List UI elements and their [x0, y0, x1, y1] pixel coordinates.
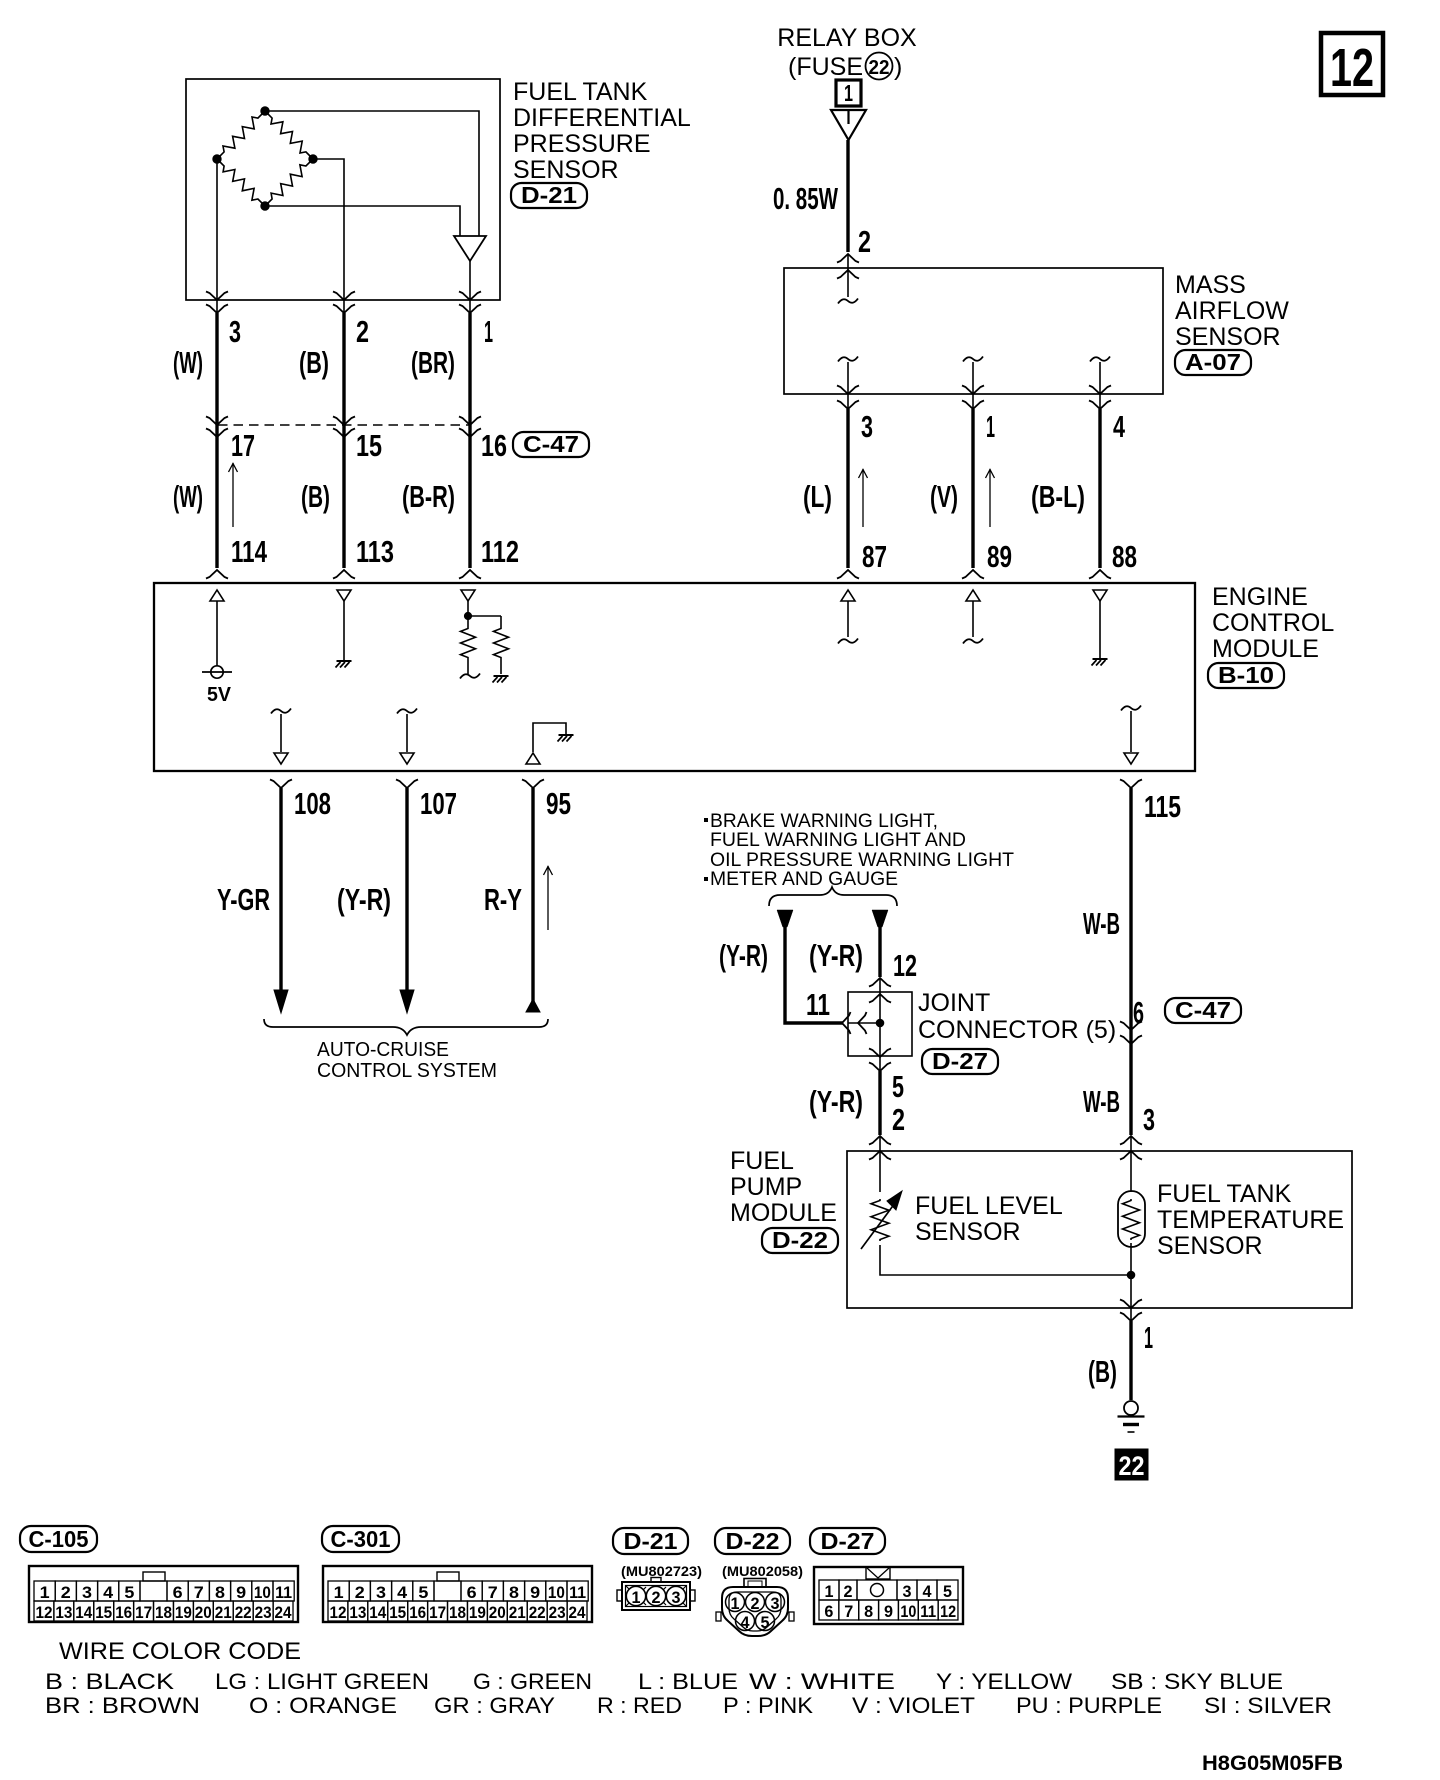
- chevrons MAF pin 2: [837, 254, 859, 279]
- svg-text:5V: 5V: [207, 684, 232, 706]
- svg-text:20: 20: [489, 1603, 506, 1622]
- pin label 2: [356, 314, 369, 349]
- svg-text:8: 8: [864, 1602, 873, 1621]
- svg-text:15: 15: [356, 428, 382, 463]
- wire (Y-R) joint 12: [878, 925, 881, 977]
- svg-text:10: 10: [254, 1583, 271, 1602]
- joint connector box D-27: [848, 992, 912, 1056]
- ground (ECM pin 95): [558, 735, 574, 742]
- svg-text:1: 1: [40, 1583, 50, 1602]
- svg-text:16: 16: [481, 428, 507, 463]
- ground (ECM pin 113): [336, 661, 352, 668]
- page number box 12: [1321, 33, 1383, 98]
- relay box label: [777, 24, 917, 52]
- svg-text:17: 17: [231, 428, 255, 463]
- svg-text:CONTROL: CONTROL: [1212, 609, 1334, 637]
- svg-text:22: 22: [1119, 1451, 1145, 1481]
- svg-text:7: 7: [844, 1602, 853, 1621]
- svg-text:0. 85W: 0. 85W: [773, 181, 838, 216]
- connector id D-22: [762, 1227, 838, 1253]
- chevrons C-47 pin 6: [1120, 1022, 1142, 1045]
- svg-text:22: 22: [529, 1603, 546, 1622]
- ECM pin 95 triangle: [526, 753, 540, 764]
- pin label 89: [987, 539, 1012, 574]
- ECM pin 112 internal node: [464, 601, 501, 620]
- pin label 5: [892, 1069, 904, 1104]
- svg-text:(Y-R): (Y-R): [809, 938, 863, 973]
- ECM pin 107 output triangle: [400, 753, 414, 764]
- svg-text:D-27: D-27: [821, 1528, 875, 1554]
- pin label 2 (fuel pump): [892, 1102, 905, 1137]
- node bridge top: [261, 107, 269, 115]
- ground (ECM pin 88): [1092, 659, 1108, 666]
- svg-text:3: 3: [771, 1594, 780, 1613]
- svg-text:SENSOR: SENSOR: [513, 156, 619, 184]
- part number MU802058: [722, 1563, 803, 1579]
- svg-text:OIL PRESSURE WARNING LIGHT: OIL PRESSURE WARNING LIGHT: [710, 850, 1014, 871]
- arrow beside wire 95: [544, 866, 553, 930]
- ECM pin 89 input triangle: [966, 590, 980, 601]
- svg-text:(W): (W): [173, 345, 203, 380]
- svg-text:14: 14: [369, 1603, 386, 1622]
- connector drawing D-22: [716, 1579, 794, 1637]
- svg-text:5: 5: [943, 1582, 952, 1601]
- connector C-47 chevrons x=344: [333, 417, 355, 438]
- svg-text:(V): (V): [930, 479, 958, 514]
- chevron at ECM top x=1100: [1089, 570, 1111, 579]
- svg-text:22: 22: [869, 57, 890, 79]
- brace warning lights: [769, 887, 897, 906]
- svg-text:6: 6: [467, 1583, 477, 1602]
- svg-text:(B-R): (B-R): [402, 479, 455, 514]
- svg-text:(Y-R): (Y-R): [337, 882, 391, 917]
- svg-text:11: 11: [569, 1583, 586, 1602]
- svg-text:D-21: D-21: [521, 182, 577, 208]
- svg-text:17: 17: [135, 1603, 152, 1622]
- svg-text:Y-GR: Y-GR: [217, 882, 270, 917]
- svg-text:2: 2: [356, 314, 369, 349]
- ECM pin 89 internal wire: [963, 601, 983, 644]
- ECM pin 88 ground wire: [1099, 601, 1101, 658]
- arrow beside wire 87: [859, 469, 868, 527]
- svg-text:(B): (B): [301, 479, 330, 514]
- svg-text:(MU802723): (MU802723): [621, 1563, 702, 1579]
- connector drawing D-27: [814, 1567, 963, 1624]
- ECM pin 115 internal wire: [1121, 706, 1141, 753]
- pin label 108: [294, 786, 331, 821]
- svg-text:7: 7: [194, 1583, 204, 1602]
- chevron at ECM top x=848: [837, 570, 859, 579]
- svg-text:BR : BROWN: BR : BROWN: [45, 1693, 200, 1718]
- svg-text:88: 88: [1112, 539, 1137, 574]
- svg-text:107: 107: [420, 786, 457, 821]
- svg-text:2: 2: [751, 1594, 760, 1613]
- svg-text:4: 4: [103, 1583, 114, 1602]
- arrowhead to meter (right): [872, 910, 888, 927]
- svg-text:(Y-R): (Y-R): [719, 938, 768, 973]
- svg-text:W : WHITE: W : WHITE: [749, 1669, 895, 1694]
- svg-text:PU : PURPLE: PU : PURPLE: [1016, 1693, 1162, 1718]
- svg-text:R : RED: R : RED: [597, 1693, 682, 1718]
- fuel tank temperature sensor (thermistor): [1118, 1191, 1145, 1247]
- wire Y-GR pin 108: [274, 788, 288, 1013]
- svg-text:(Y-R): (Y-R): [809, 1084, 863, 1119]
- 5V supply symbol: [202, 601, 232, 706]
- node dot fuel pump common: [1127, 1271, 1135, 1279]
- svg-text:C-301: C-301: [331, 1526, 391, 1552]
- fuel tank differential pressure sensor box D-21: [186, 79, 500, 300]
- svg-text:SENSOR: SENSOR: [1157, 1232, 1263, 1260]
- svg-text:ENGINE: ENGINE: [1212, 583, 1308, 611]
- arrow beside wire 89: [986, 469, 995, 527]
- MAF internal wire pin 1: [963, 357, 983, 410]
- module label FUEL PUMP MODULE: [730, 1147, 837, 1227]
- wire bridge right node to pin 2: [313, 159, 344, 313]
- svg-text:1: 1: [484, 314, 493, 349]
- svg-text:D-27: D-27: [932, 1048, 988, 1074]
- connector id D-21: [511, 182, 587, 208]
- MAF internal wire pin 3: [838, 357, 858, 410]
- connector id D-21 (bottom): [613, 1528, 688, 1554]
- svg-text:16: 16: [409, 1603, 426, 1622]
- fuel pump module box D-22: [847, 1151, 1352, 1308]
- svg-text:(MU802058): (MU802058): [722, 1563, 803, 1579]
- connector C-47 chevrons x=217: [206, 417, 228, 438]
- svg-text:5: 5: [761, 1613, 770, 1632]
- svg-text:17: 17: [429, 1603, 446, 1622]
- svg-text:AIRFLOW: AIRFLOW: [1175, 297, 1289, 325]
- svg-text:PRESSURE: PRESSURE: [513, 130, 651, 158]
- connector id B-10: [1208, 662, 1284, 688]
- svg-text:W-B: W-B: [1083, 906, 1120, 941]
- svg-text:FUEL: FUEL: [730, 1147, 794, 1175]
- svg-text:18: 18: [155, 1603, 172, 1622]
- wire color (Y-R) lower: [809, 1084, 863, 1119]
- wire color code title: [59, 1638, 301, 1665]
- svg-text:SI : SILVER: SI : SILVER: [1204, 1693, 1332, 1718]
- svg-text:19: 19: [469, 1603, 486, 1622]
- chevron at ECM top x=973: [962, 570, 984, 579]
- wire (B) fuel pump to ground: [1129, 1321, 1132, 1400]
- svg-text:14: 14: [75, 1603, 92, 1622]
- svg-text:12: 12: [330, 1603, 347, 1622]
- chevron at ECM top x=217: [206, 570, 228, 579]
- chevron at ECM top x=344: [333, 570, 355, 579]
- wire (W) pin3 to C-47 pin17: [215, 313, 218, 425]
- svg-text:12: 12: [1330, 38, 1374, 98]
- svg-text:1: 1: [1144, 1320, 1153, 1355]
- op-amp U1 (pressure sensor amplifier): [454, 236, 486, 261]
- wire color code line 1: [45, 1669, 1283, 1694]
- connector chevrons sensor pin 3: [206, 292, 228, 314]
- joint internal wire horizontal: [848, 1022, 880, 1024]
- connector id D-22 (bottom): [715, 1528, 790, 1554]
- wire amplifier output to pin 1: [469, 261, 471, 313]
- svg-text:DIFFERENTIAL: DIFFERENTIAL: [513, 104, 691, 132]
- svg-text:95: 95: [546, 786, 571, 821]
- mass airflow sensor box A-07: [784, 268, 1163, 394]
- svg-text:METER AND GAUGE: METER AND GAUGE: [710, 869, 898, 890]
- svg-text:A-07: A-07: [1185, 349, 1241, 375]
- svg-text:FUEL LEVEL: FUEL LEVEL: [915, 1192, 1063, 1220]
- svg-text:112: 112: [481, 534, 519, 569]
- pin label 15: [356, 428, 382, 463]
- svg-text:24: 24: [569, 1603, 586, 1622]
- svg-text:2: 2: [61, 1583, 71, 1602]
- wire color R-Y: [484, 882, 522, 917]
- pin label 114: [231, 534, 268, 569]
- node bridge left: [213, 155, 221, 163]
- svg-text:1: 1: [844, 80, 853, 106]
- pin label 3 (fuel pump): [1143, 1102, 1155, 1137]
- chevrons joint pin 5: [869, 1049, 891, 1072]
- svg-text:1: 1: [334, 1583, 344, 1602]
- svg-text:22: 22: [235, 1603, 252, 1622]
- chevrons MAF bottom x=1100: [1089, 386, 1111, 410]
- resistor bridge bottom-left: [217, 159, 265, 206]
- svg-text:LG : LIGHT GREEN: LG : LIGHT GREEN: [215, 1669, 429, 1694]
- svg-text:(B-L): (B-L): [1031, 479, 1085, 514]
- svg-text:RELAY BOX: RELAY BOX: [777, 24, 917, 52]
- svg-text:3: 3: [672, 1588, 681, 1607]
- chevron ECM pin 115: [1120, 780, 1142, 789]
- wire W-B C-47 to fuel pump: [1129, 1028, 1132, 1135]
- svg-text:18: 18: [449, 1603, 466, 1622]
- svg-text:114: 114: [231, 534, 268, 569]
- ECM pin 107 internal wire: [397, 709, 417, 753]
- svg-text:BRAKE WARNING LIGHT,: BRAKE WARNING LIGHT,: [710, 811, 938, 832]
- svg-text:23: 23: [255, 1603, 272, 1622]
- svg-text:(B): (B): [1088, 1354, 1117, 1389]
- svg-text:MODULE: MODULE: [730, 1199, 837, 1227]
- connector drawing C-301: [323, 1566, 592, 1622]
- ground symbol 22: [1118, 1401, 1145, 1432]
- chevrons MAF bottom x=973: [962, 386, 984, 410]
- ECM pin 95 internal wire: [533, 723, 566, 752]
- connector id C-301: [322, 1526, 399, 1552]
- svg-text:2: 2: [652, 1588, 661, 1607]
- wire (V) MAF1 to ECM89: [971, 409, 974, 568]
- chevron ECM pin 108: [270, 780, 292, 789]
- sensor label FUEL TANK DIFFERENTIAL PRESSURE SENSOR: [513, 78, 691, 184]
- svg-text:21: 21: [509, 1603, 526, 1622]
- wire fuse to MAF pin 2: [846, 140, 849, 252]
- svg-text:13: 13: [349, 1603, 366, 1622]
- svg-text:MASS: MASS: [1175, 271, 1246, 299]
- svg-text:2: 2: [858, 224, 871, 259]
- connector id C-47: [513, 431, 589, 457]
- pin label 107: [420, 786, 457, 821]
- svg-text:4: 4: [923, 1582, 933, 1601]
- svg-text:SENSOR: SENSOR: [915, 1218, 1021, 1246]
- pin label 1 (MAF): [986, 409, 995, 444]
- document number H8G05M05FB: [1202, 1752, 1343, 1775]
- wire (B) pin2 to C-47 pin15: [342, 313, 345, 425]
- fuel pump common wire: [1130, 1243, 1132, 1321]
- connector drawing D-21: [617, 1578, 695, 1611]
- ground id 22 black box: [1115, 1449, 1148, 1481]
- fuel level sensor wire top: [879, 1136, 881, 1192]
- svg-text:6: 6: [173, 1583, 183, 1602]
- wire (Y-R) joint to fuel pump: [878, 1071, 881, 1135]
- ECM pin 88 input triangle: [1093, 590, 1107, 601]
- wire color (BR): [411, 345, 455, 380]
- pin label 87: [862, 539, 887, 574]
- pin label 115: [1144, 789, 1181, 824]
- connector id C-47 (pin 6): [1165, 997, 1241, 1023]
- label JOINT CONNECTOR (5): [918, 989, 1116, 1044]
- svg-text:O : ORANGE: O : ORANGE: [249, 1693, 397, 1718]
- svg-text:21: 21: [215, 1603, 232, 1622]
- svg-text:WIRE COLOR CODE: WIRE COLOR CODE: [59, 1638, 301, 1665]
- chevron joint pin 12 inside: [869, 994, 891, 1003]
- connector chevrons sensor pin 1: [459, 292, 481, 314]
- svg-text:CONNECTOR (5): CONNECTOR (5): [918, 1016, 1116, 1044]
- svg-text:3: 3: [1143, 1102, 1155, 1137]
- svg-text:6: 6: [1133, 995, 1144, 1030]
- note brake warning light: [704, 811, 1014, 890]
- svg-text:FUEL TANK: FUEL TANK: [513, 78, 648, 106]
- svg-text:2: 2: [355, 1583, 365, 1602]
- svg-text:(BR): (BR): [411, 345, 455, 380]
- wire (B-L) MAF4 to ECM88: [1098, 409, 1101, 568]
- svg-text:P : PINK: P : PINK: [723, 1693, 813, 1718]
- resistor bridge bottom-right: [265, 159, 313, 206]
- connector C-47 dashed line: [218, 424, 470, 426]
- wire color (V): [930, 479, 958, 514]
- svg-text:9: 9: [236, 1583, 246, 1602]
- svg-text:C-47: C-47: [1175, 997, 1231, 1023]
- chevrons fuel pump pin 2: [869, 1136, 891, 1160]
- fuel level sensor (variable resistor): [861, 1191, 902, 1249]
- svg-text:D-22: D-22: [772, 1227, 828, 1253]
- chevron joint pin 12 outside: [869, 978, 891, 994]
- svg-text:C-105: C-105: [29, 1526, 89, 1552]
- svg-text:D-22: D-22: [726, 1528, 780, 1554]
- svg-text:2: 2: [844, 1582, 853, 1601]
- svg-text:10: 10: [900, 1602, 916, 1621]
- svg-text:1: 1: [632, 1588, 641, 1607]
- pull resistor R-b: [494, 616, 509, 674]
- svg-text:23: 23: [549, 1603, 566, 1622]
- svg-text:12: 12: [940, 1602, 956, 1621]
- ECM pin 108 output triangle: [274, 753, 288, 764]
- connector id C-105: [20, 1526, 97, 1552]
- pin label 4 (MAF): [1113, 409, 1126, 444]
- fuse symbol triangle: [831, 110, 866, 140]
- svg-text:3: 3: [376, 1583, 386, 1602]
- svg-text:4: 4: [1113, 409, 1126, 444]
- pin label 95: [546, 786, 571, 821]
- chevron ECM pin 95: [522, 780, 544, 789]
- svg-text:15: 15: [95, 1603, 112, 1622]
- svg-text:5: 5: [892, 1069, 904, 1104]
- connector drawing C-105: [29, 1566, 298, 1622]
- wire (B-R) C-47 to ECM pin112: [468, 425, 471, 568]
- svg-text:B : BLACK: B : BLACK: [45, 1669, 174, 1694]
- wire (BR) pin1 to C-47 pin16: [468, 313, 471, 425]
- svg-text:W-B: W-B: [1083, 1084, 1120, 1119]
- connector id D-27 (bottom): [810, 1528, 885, 1554]
- pin label 112: [481, 534, 519, 569]
- pin label 12: [893, 948, 917, 983]
- pull resistor R-a: [461, 616, 476, 674]
- svg-text:115: 115: [1144, 789, 1181, 824]
- joint internal wire vertical: [879, 994, 881, 1056]
- wire label 0.85W: [773, 181, 838, 216]
- svg-text:20: 20: [195, 1603, 212, 1622]
- svg-text:3: 3: [82, 1583, 92, 1602]
- arrowhead to warning lights (left): [777, 910, 793, 927]
- pin label 3 (MAF): [861, 409, 873, 444]
- svg-text:7: 7: [488, 1583, 498, 1602]
- part number MU802723: [621, 1563, 702, 1579]
- svg-text:15: 15: [389, 1603, 406, 1622]
- wire bridge bottom node to amplifier: [265, 206, 460, 236]
- svg-text:9: 9: [884, 1602, 893, 1621]
- svg-text:108: 108: [294, 786, 331, 821]
- svg-text:8: 8: [509, 1583, 519, 1602]
- svg-text:13: 13: [55, 1603, 72, 1622]
- connector id A-07: [1175, 349, 1251, 375]
- brace auto-cruise system: [264, 1019, 548, 1035]
- svg-text:16: 16: [115, 1603, 132, 1622]
- module label ENGINE CONTROL MODULE: [1212, 583, 1334, 663]
- svg-text:1: 1: [825, 1582, 834, 1601]
- svg-text:MODULE: MODULE: [1212, 635, 1319, 663]
- svg-text:12: 12: [893, 948, 917, 983]
- svg-text:FUEL TANK: FUEL TANK: [1157, 1180, 1292, 1208]
- fuse terminal box 1: [836, 80, 861, 106]
- sensor label MASS AIRFLOW SENSOR: [1175, 271, 1289, 351]
- svg-text:SENSOR: SENSOR: [1175, 323, 1281, 351]
- svg-text:GR : GRAY: GR : GRAY: [434, 1693, 555, 1718]
- joint internal node dot: [876, 1019, 884, 1027]
- pin label 16: [481, 428, 507, 463]
- node bridge right: [309, 155, 317, 163]
- wire color (W) 2: [173, 479, 203, 514]
- ECM pin 108 internal wire: [271, 709, 291, 753]
- wire R-Y pin 95: [526, 788, 540, 1012]
- wire color (B): [1088, 1354, 1117, 1389]
- svg-text:9: 9: [530, 1583, 540, 1602]
- svg-text:B-10: B-10: [1218, 662, 1274, 688]
- ground (resistor R-b): [493, 676, 509, 683]
- wire (B) C-47 to ECM pin113: [342, 425, 345, 568]
- svg-text:12: 12: [36, 1603, 53, 1622]
- svg-text:(W): (W): [173, 479, 203, 514]
- svg-text:V : VIOLET: V : VIOLET: [852, 1693, 975, 1718]
- resistor bridge top-right: [265, 111, 313, 159]
- wire bridge top node to amplifier: [265, 111, 479, 236]
- pin label 1: [484, 314, 493, 349]
- svg-text:11: 11: [275, 1583, 292, 1602]
- ECM pin 112 input triangle: [461, 590, 475, 601]
- connector id D-27 (joint): [922, 1048, 998, 1074]
- svg-text:(L): (L): [803, 479, 832, 514]
- svg-text:89: 89: [987, 539, 1012, 574]
- ECM pin 113 ground wire: [343, 601, 345, 660]
- svg-text:Y : YELLOW: Y : YELLOW: [936, 1669, 1072, 1694]
- svg-text:CONTROL SYSTEM: CONTROL SYSTEM: [317, 1060, 497, 1082]
- connector chevrons sensor pin 2: [333, 292, 355, 314]
- svg-text:C-47: C-47: [523, 431, 579, 457]
- fuel level sensor wire bottom: [880, 1245, 1131, 1275]
- wire color Y-GR: [217, 882, 270, 917]
- tilde end of resistor R-a: [460, 674, 480, 679]
- wire color (B-L): [1031, 479, 1085, 514]
- resistor bridge top-left: [217, 111, 265, 159]
